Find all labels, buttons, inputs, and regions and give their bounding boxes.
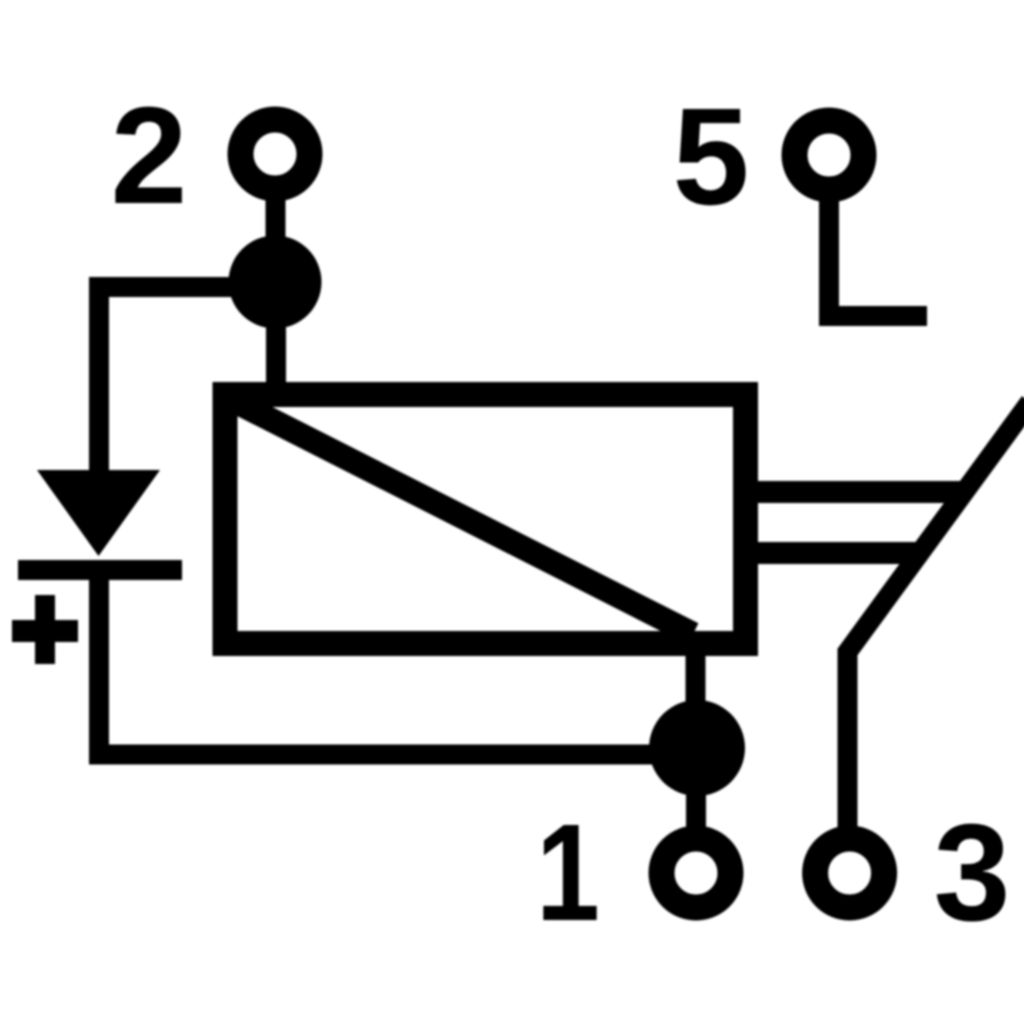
svg-text:2: 2 xyxy=(111,79,188,233)
terminal circle 1 xyxy=(662,839,731,908)
junction dot A xyxy=(229,236,322,329)
wire diode down and right to junction B xyxy=(99,578,697,755)
relay coil box K1 xyxy=(225,395,746,644)
fixed contact stub lower (NO) xyxy=(757,542,918,564)
wire coil box bottom to junction B xyxy=(686,650,706,712)
wire junction B to terminal 1 xyxy=(686,788,706,832)
wire junctionA left and down to diode xyxy=(99,287,275,472)
label pin 1 xyxy=(536,795,600,950)
terminal circle 3 xyxy=(815,839,884,908)
wire junctionA down to coil box xyxy=(266,318,286,394)
svg-text:1: 1 xyxy=(536,795,600,950)
junction dot B xyxy=(649,700,745,796)
fixed contact stub upper (NC) xyxy=(757,481,962,503)
svg-text:5: 5 xyxy=(673,80,750,234)
terminal circle 2 xyxy=(241,120,310,189)
svg-text:3: 3 xyxy=(934,796,1011,950)
diode D1 cathode bar xyxy=(18,560,182,580)
wire terminal 5 L-shape xyxy=(829,198,927,316)
wire terminal2 to junction xyxy=(266,197,286,242)
coil box diagonal xyxy=(238,403,693,634)
plus polarity mark xyxy=(12,595,78,664)
diode D1 triangle xyxy=(37,470,160,556)
switch arm and wire to terminal 3 xyxy=(848,402,1024,832)
terminal circle 5 xyxy=(795,121,864,190)
